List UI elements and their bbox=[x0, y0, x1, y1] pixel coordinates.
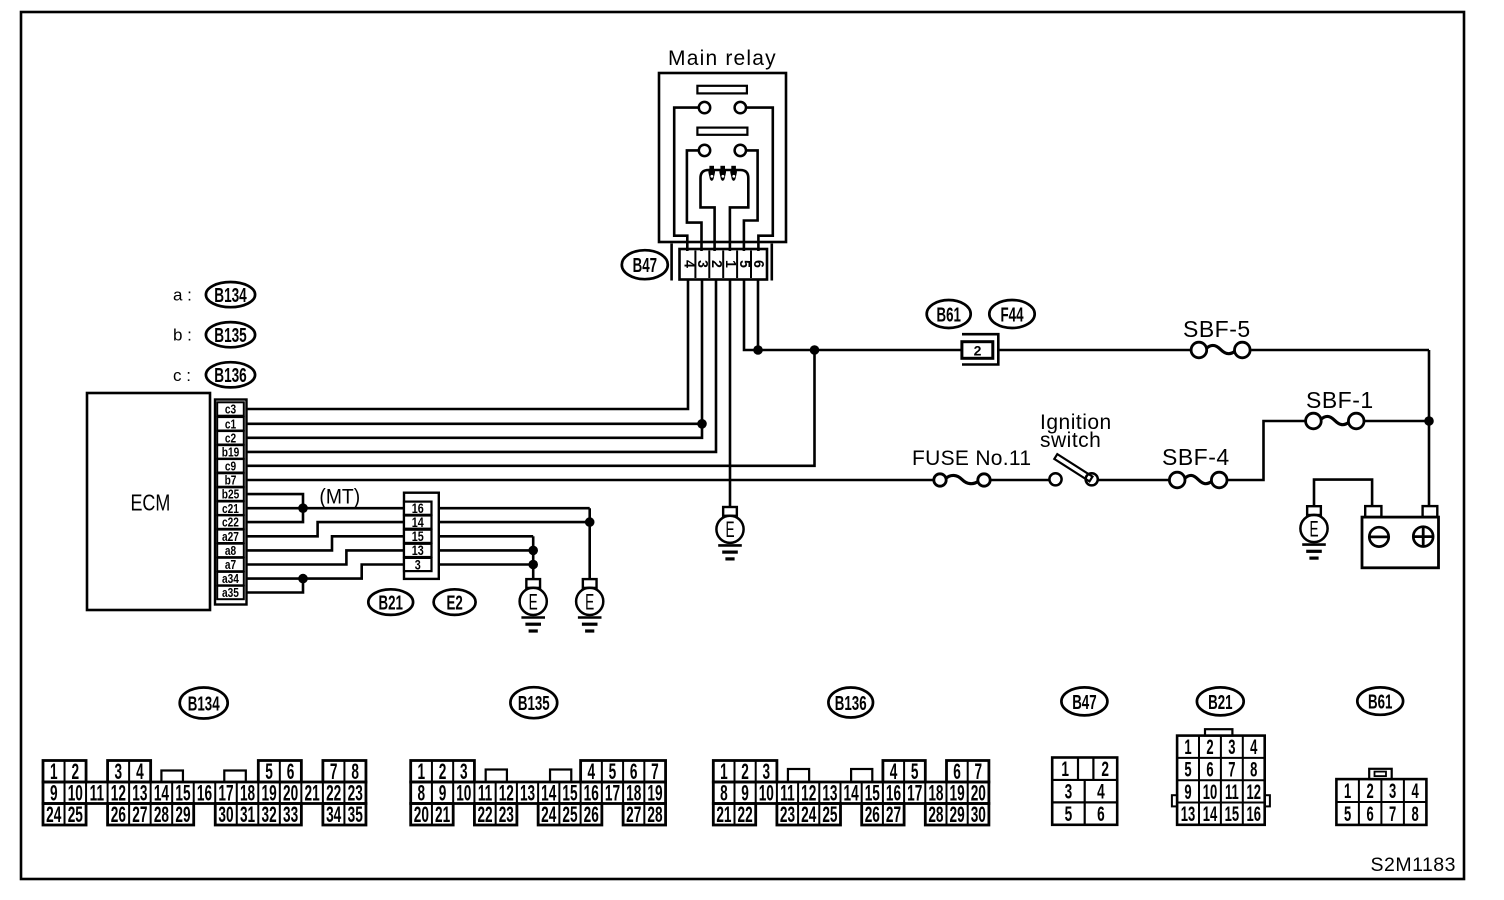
svg-text:SBF-5: SBF-5 bbox=[1183, 316, 1251, 342]
svg-text:2: 2 bbox=[1367, 779, 1374, 803]
svg-text:28: 28 bbox=[647, 802, 662, 827]
svg-text:B136: B136 bbox=[214, 364, 247, 386]
svg-text:b19: b19 bbox=[222, 445, 240, 459]
svg-text:a7: a7 bbox=[225, 558, 236, 572]
svg-text:c9: c9 bbox=[225, 459, 237, 473]
svg-text:B134: B134 bbox=[214, 284, 247, 306]
svg-text:24: 24 bbox=[801, 802, 817, 827]
svg-text:B47: B47 bbox=[633, 253, 657, 277]
svg-text:E: E bbox=[585, 589, 594, 614]
svg-text:12: 12 bbox=[1247, 780, 1262, 804]
svg-text:a8: a8 bbox=[225, 544, 237, 558]
svg-text:1: 1 bbox=[1184, 735, 1191, 759]
svg-text:6: 6 bbox=[1367, 802, 1374, 826]
svg-text:30: 30 bbox=[218, 802, 233, 827]
svg-text:24: 24 bbox=[46, 802, 62, 827]
svg-text:b25: b25 bbox=[222, 488, 240, 502]
svg-text:B21: B21 bbox=[378, 591, 403, 615]
svg-text:20: 20 bbox=[414, 802, 429, 827]
svg-text:7: 7 bbox=[1389, 802, 1396, 826]
svg-text:4: 4 bbox=[1412, 779, 1419, 803]
svg-text:13: 13 bbox=[520, 780, 535, 805]
svg-text:S2M1183: S2M1183 bbox=[1370, 854, 1456, 876]
svg-text:F44: F44 bbox=[1001, 302, 1024, 326]
svg-text:3: 3 bbox=[1389, 779, 1396, 803]
svg-text:6: 6 bbox=[1097, 802, 1105, 826]
svg-text:1: 1 bbox=[1061, 757, 1069, 781]
svg-text:10: 10 bbox=[759, 780, 774, 805]
svg-text:35: 35 bbox=[348, 802, 363, 827]
svg-text:a :: a : bbox=[173, 286, 192, 305]
svg-text:B21: B21 bbox=[1208, 690, 1233, 714]
svg-text:17: 17 bbox=[605, 780, 620, 805]
svg-text:31: 31 bbox=[240, 802, 255, 827]
svg-text:B47: B47 bbox=[1072, 690, 1096, 714]
svg-text:E2: E2 bbox=[446, 591, 462, 615]
svg-text:26: 26 bbox=[111, 802, 126, 827]
svg-text:a35: a35 bbox=[222, 586, 239, 600]
svg-text:c1: c1 bbox=[225, 417, 237, 431]
svg-text:34: 34 bbox=[326, 802, 342, 827]
svg-text:22: 22 bbox=[738, 802, 753, 827]
svg-text:B135: B135 bbox=[214, 324, 247, 346]
svg-text:SBF-1: SBF-1 bbox=[1306, 387, 1374, 413]
svg-text:10: 10 bbox=[1203, 780, 1217, 804]
svg-text:17: 17 bbox=[907, 780, 922, 805]
svg-text:B61: B61 bbox=[936, 302, 961, 326]
svg-text:3: 3 bbox=[1065, 780, 1073, 804]
svg-text:6: 6 bbox=[750, 260, 766, 268]
svg-text:5: 5 bbox=[1184, 757, 1191, 781]
svg-text:1: 1 bbox=[1344, 779, 1351, 803]
svg-text:3: 3 bbox=[1228, 735, 1235, 759]
svg-text:21: 21 bbox=[305, 780, 320, 805]
svg-text:b :: b : bbox=[173, 326, 192, 345]
svg-text:b7: b7 bbox=[225, 473, 237, 487]
svg-text:E: E bbox=[529, 589, 538, 614]
svg-text:4: 4 bbox=[1097, 780, 1105, 804]
svg-text:c :: c : bbox=[173, 366, 191, 385]
svg-text:21: 21 bbox=[716, 802, 731, 827]
svg-text:switch: switch bbox=[1040, 429, 1101, 452]
svg-text:14: 14 bbox=[844, 780, 860, 805]
svg-text:15: 15 bbox=[1225, 802, 1240, 826]
svg-text:27: 27 bbox=[132, 802, 147, 827]
svg-text:23: 23 bbox=[499, 802, 514, 827]
svg-text:Main relay: Main relay bbox=[668, 47, 777, 70]
svg-text:E: E bbox=[725, 517, 734, 542]
svg-text:11: 11 bbox=[90, 780, 104, 805]
svg-text:FUSE No.11: FUSE No.11 bbox=[912, 447, 1031, 470]
svg-text:14: 14 bbox=[1203, 802, 1218, 826]
svg-text:a27: a27 bbox=[222, 530, 239, 544]
svg-text:29: 29 bbox=[950, 802, 965, 827]
svg-text:25: 25 bbox=[562, 802, 577, 827]
svg-text:SBF-4: SBF-4 bbox=[1162, 444, 1230, 470]
svg-text:26: 26 bbox=[865, 802, 880, 827]
svg-text:B135: B135 bbox=[518, 691, 550, 715]
svg-text:2: 2 bbox=[974, 343, 982, 359]
svg-text:c2: c2 bbox=[225, 431, 237, 445]
svg-text:7: 7 bbox=[1228, 757, 1235, 781]
svg-text:21: 21 bbox=[435, 802, 450, 827]
svg-text:27: 27 bbox=[626, 802, 641, 827]
svg-text:28: 28 bbox=[928, 802, 943, 827]
svg-text:9: 9 bbox=[1184, 780, 1191, 804]
svg-text:25: 25 bbox=[68, 802, 83, 827]
svg-text:16: 16 bbox=[1247, 802, 1262, 826]
svg-text:23: 23 bbox=[780, 802, 795, 827]
svg-text:10: 10 bbox=[456, 780, 471, 805]
svg-text:16: 16 bbox=[197, 780, 212, 805]
svg-text:25: 25 bbox=[822, 802, 837, 827]
svg-text:30: 30 bbox=[971, 802, 986, 827]
svg-text:B136: B136 bbox=[835, 691, 867, 715]
svg-text:6: 6 bbox=[1206, 757, 1213, 781]
svg-text:c3: c3 bbox=[225, 402, 237, 416]
svg-text:14: 14 bbox=[412, 515, 424, 530]
svg-text:4: 4 bbox=[1250, 735, 1257, 759]
svg-text:3: 3 bbox=[415, 557, 421, 572]
svg-text:11: 11 bbox=[1225, 780, 1239, 804]
svg-text:ECM: ECM bbox=[130, 491, 170, 517]
svg-text:28: 28 bbox=[154, 802, 169, 827]
svg-text:B61: B61 bbox=[1368, 690, 1393, 714]
svg-text:29: 29 bbox=[175, 802, 190, 827]
svg-text:26: 26 bbox=[584, 802, 599, 827]
svg-text:c22: c22 bbox=[222, 516, 239, 530]
svg-text:8: 8 bbox=[1250, 757, 1257, 781]
svg-text:13: 13 bbox=[1181, 802, 1196, 826]
svg-text:E: E bbox=[1309, 516, 1318, 541]
svg-text:5: 5 bbox=[1344, 802, 1351, 826]
svg-text:33: 33 bbox=[283, 802, 298, 827]
svg-text:5: 5 bbox=[1065, 802, 1073, 826]
svg-text:(MT): (MT) bbox=[319, 486, 360, 509]
svg-text:22: 22 bbox=[477, 802, 492, 827]
svg-text:2: 2 bbox=[1101, 757, 1109, 781]
svg-text:c21: c21 bbox=[222, 502, 239, 516]
svg-text:8: 8 bbox=[1412, 802, 1419, 826]
svg-text:B134: B134 bbox=[188, 691, 220, 715]
svg-text:2: 2 bbox=[1206, 735, 1213, 759]
svg-text:a34: a34 bbox=[222, 572, 239, 586]
svg-text:27: 27 bbox=[886, 802, 901, 827]
svg-text:32: 32 bbox=[261, 802, 276, 827]
svg-text:24: 24 bbox=[541, 802, 557, 827]
